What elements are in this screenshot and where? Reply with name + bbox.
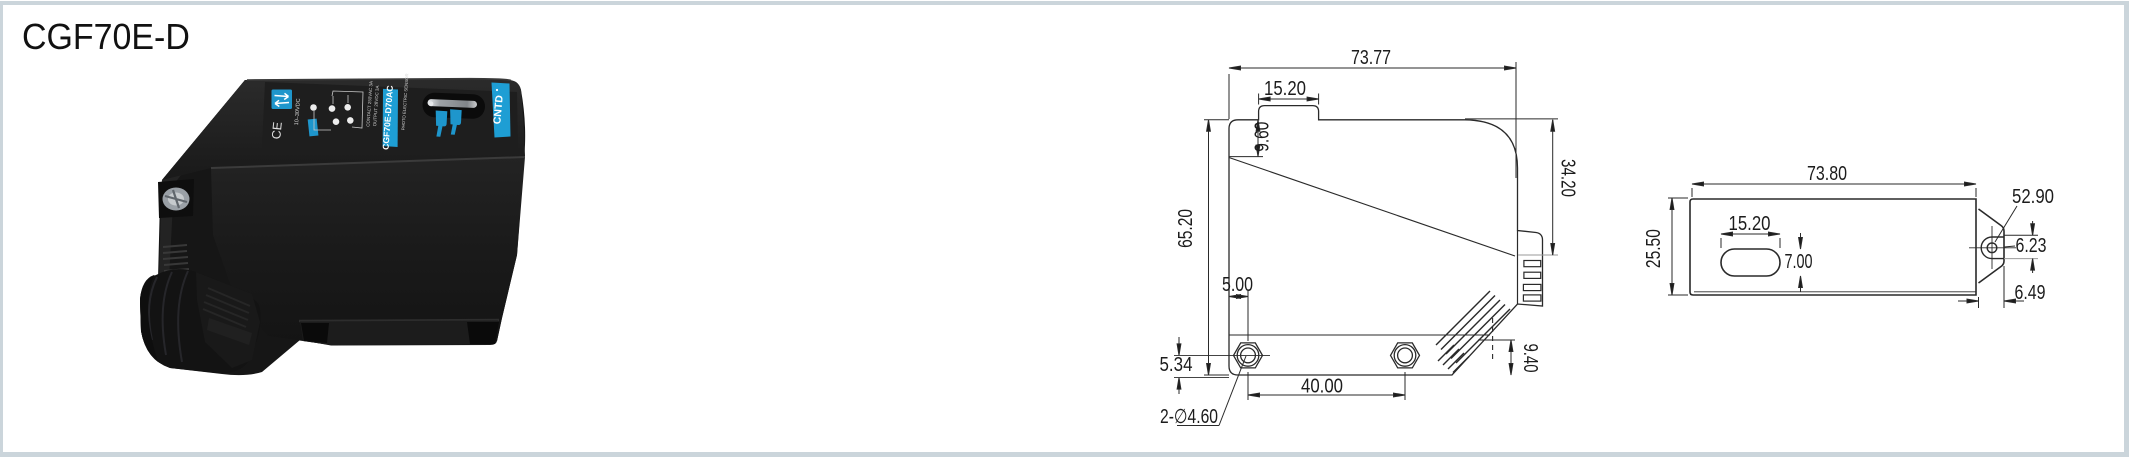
svg-text:15.20: 15.20	[1264, 78, 1306, 100]
border frame left band	[0, 1, 3, 457]
sensor photo: gland hex collar	[196, 272, 260, 368]
sensor photo: screw recess plate	[158, 179, 194, 218]
connector slot 3	[1523, 284, 1541, 290]
sensor side-view body outline	[1229, 106, 1543, 375]
dim 6.23	[2004, 221, 2038, 273]
sensor photo: gland end cap	[140, 276, 158, 362]
body right edge behind tab and connector	[1517, 231, 1519, 305]
dim 15.20	[1721, 232, 1780, 248]
sensor photo: bottom ledge line	[299, 320, 499, 321]
dim 5.00	[1229, 291, 1248, 341]
connector slot 2	[1524, 272, 1541, 278]
hex nut 1	[1234, 343, 1263, 368]
diagonal window split line	[1229, 158, 1515, 257]
label print: metallic slit	[427, 99, 477, 108]
sensor photo: top cap lid	[162, 79, 525, 181]
dim 34.20	[1465, 119, 1558, 255]
connector slot 1	[1524, 261, 1541, 267]
sensor photo: left side face	[159, 80, 252, 279]
dim 40.00	[1248, 372, 1405, 400]
sensor photo: gland rib highlights	[149, 271, 188, 362]
label print: OUT tab	[450, 109, 462, 135]
sensor photo: bottom flange strip	[300, 321, 498, 346]
cable hatch short strokes	[1438, 345, 1469, 373]
label print: CNTD cyan band	[492, 83, 511, 138]
label print: logo square	[272, 90, 293, 110]
dim 9.60	[1229, 120, 1263, 157]
sensor photo: left vents	[163, 245, 189, 271]
border frame top band	[0, 1, 2129, 5]
sensor photo: foot boss left	[301, 323, 329, 343]
svg-text:6.23: 6.23	[2016, 235, 2047, 257]
sensor photo: front face	[211, 157, 525, 345]
svg-text:5.34: 5.34	[1160, 354, 1193, 376]
sensor photo: molded text patch	[207, 318, 252, 345]
svg-text:CE: CE	[269, 121, 285, 140]
svg-text:34.20: 34.20	[1557, 159, 1579, 197]
dim 65.20	[1204, 120, 1229, 375]
dim 25.50	[1668, 198, 1688, 295]
title CGF70E-D	[22, 16, 190, 58]
dim 15.20	[1259, 94, 1319, 105]
svg-text:65.20: 65.20	[1175, 209, 1197, 248]
label print: indicator window recess	[422, 92, 485, 119]
dim 9.40	[1478, 340, 1515, 375]
mounting tab	[1979, 209, 2005, 283]
sensor photo: collar grooves	[203, 288, 250, 327]
cable hatch lines	[1436, 291, 1510, 363]
dim 6.49	[1958, 266, 2024, 308]
label print: wiring lines	[314, 91, 363, 130]
connector slot 4	[1523, 295, 1541, 301]
border frame bottom band	[0, 452, 2129, 457]
dim 73.80	[1692, 182, 1976, 197]
svg-text:73.77: 73.77	[1351, 47, 1391, 69]
tab hole boss stadium	[1981, 237, 2004, 259]
mounting slot stadium	[1721, 249, 1780, 276]
svg-text:25.50: 25.50	[1643, 229, 1665, 268]
tab hole	[1987, 243, 1997, 253]
svg-text:6.49: 6.49	[2015, 282, 2046, 304]
dim 7.00	[1799, 233, 1803, 292]
border frame right band	[2124, 4, 2129, 452]
sensor photo: cable gland body	[140, 269, 261, 373]
sensor photo: main body silhouette	[140, 79, 525, 376]
label print: POWER cyan bar	[308, 119, 319, 137]
svg-text:5.00: 5.00	[1222, 274, 1253, 296]
dashed centerline of cable	[1492, 318, 1494, 359]
flange top line	[1229, 334, 1490, 336]
svg-text:9.40: 9.40	[1519, 344, 1541, 373]
svg-text:52.90: 52.90	[2012, 186, 2054, 208]
label print: model cyan band CGF70E-D70AC	[383, 89, 398, 147]
svg-text:15.20: 15.20	[1729, 213, 1771, 235]
sensor photo: screw head	[163, 188, 190, 211]
svg-text:7.00: 7.00	[1785, 251, 1813, 273]
centerline through nuts	[1174, 354, 1270, 356]
sensor photo: top rim highlight	[247, 79, 511, 81]
bottom inner line	[1694, 291, 1976, 293]
sensor photo: foot boss right	[467, 322, 499, 344]
svg-text:CNTD: CNTD	[491, 94, 506, 125]
tab hole crosshair	[1969, 226, 2016, 269]
svg-text:40.00: 40.00	[1301, 376, 1343, 398]
svg-text:73.80: 73.80	[1807, 163, 1847, 185]
dim 5.34	[1174, 337, 1229, 394]
hex nut 2	[1391, 343, 1420, 368]
label print: terminal circles	[310, 104, 353, 125]
svg-text:2-∅4.60: 2-∅4.60	[1160, 406, 1218, 428]
label print: STAB tab	[436, 111, 448, 137]
sensor top-view body rectangle	[1690, 199, 1976, 295]
sensor photo: ridge highlight	[211, 157, 525, 168]
svg-text:9.60: 9.60	[1252, 122, 1274, 152]
dim 73.77	[1229, 62, 1516, 178]
sensor photo: label plate	[262, 82, 518, 151]
